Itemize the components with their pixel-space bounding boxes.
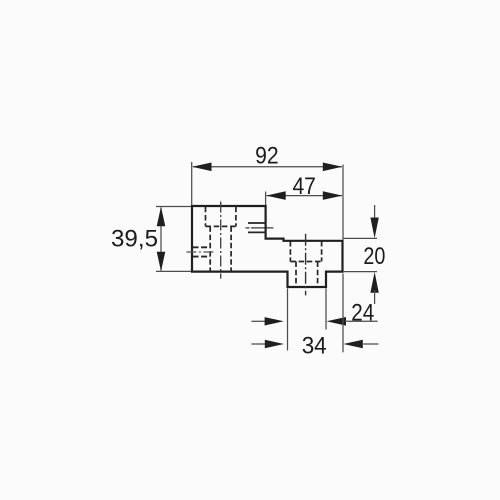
dim 39,5: top arrow bbox=[157, 207, 166, 227]
dim 24: left arrow head bbox=[265, 317, 284, 325]
hidden hole left: counterbore outer right bbox=[235, 207, 237, 227]
dim 34: right shaft bbox=[362, 343, 378, 345]
right hole centerline bbox=[305, 234, 307, 296]
dim 24: extension tenon right bbox=[325, 289, 327, 330]
dim 20: upper arrow shaft bbox=[374, 205, 376, 220]
step face hole: bottom line bbox=[248, 231, 266, 233]
hidden hole right: counterbore outer right bbox=[321, 241, 323, 262]
dim 24: extension tenon left bbox=[287, 289, 289, 351]
hidden hole right: inner right bbox=[317, 262, 319, 287]
dim 92/47: extension right bbox=[342, 165, 344, 240]
dim 92: extension left bbox=[191, 162, 193, 205]
dim 39,5: extension bottom bbox=[156, 270, 191, 272]
svg-text:34: 34 bbox=[302, 333, 327, 360]
hidden side hole: top bbox=[193, 246, 211, 248]
hidden hole left: inner left bbox=[209, 226, 211, 271]
svg-text:92: 92 bbox=[255, 143, 279, 170]
svg-text:24: 24 bbox=[351, 300, 374, 327]
hidden hole right: shoulder bbox=[290, 261, 321, 263]
dim 34: extension right bbox=[342, 274, 344, 353]
dim 34: left shaft bbox=[251, 343, 266, 345]
hidden hole right: inner left bbox=[295, 262, 297, 287]
dim 24: right shaft bbox=[345, 320, 378, 322]
hidden hole right: counterbore outer left bbox=[289, 241, 291, 262]
dim 92: line bbox=[193, 166, 342, 168]
svg-text:20: 20 bbox=[363, 243, 385, 270]
step face hole centerline bbox=[246, 227, 275, 229]
dim 47: right arrow bbox=[323, 191, 343, 200]
dim 20: ref line bottom bbox=[343, 271, 377, 273]
dim 39,5: line bbox=[160, 208, 162, 271]
dim 39,5: extension top bbox=[156, 206, 191, 208]
hidden hole left: inner right bbox=[230, 226, 232, 271]
dim 20: lower arrow head bbox=[370, 272, 378, 293]
part outline bbox=[192, 206, 343, 287]
dim 34: left arrow head bbox=[265, 340, 284, 348]
dim 24: left shaft bbox=[251, 320, 266, 322]
svg-text:39,5: 39,5 bbox=[111, 226, 158, 253]
dim 20: ref line top bbox=[343, 237, 377, 239]
dim 20: upper arrow head bbox=[370, 218, 378, 239]
hidden hole left: counterbore outer left bbox=[205, 207, 207, 227]
step face hole: top line bbox=[248, 222, 266, 224]
dim 92: left arrow bbox=[192, 163, 212, 172]
dim 34: right arrow head bbox=[343, 340, 363, 349]
hidden side hole: bottom bbox=[193, 256, 211, 258]
dim 47: extension left bbox=[265, 192, 267, 206]
dim 47: left arrow bbox=[266, 191, 286, 200]
dim 20: lower arrow shaft bbox=[374, 290, 376, 304]
dim 39,5: bottom arrow bbox=[157, 252, 166, 272]
left hole centerline bbox=[220, 202, 222, 279]
dim 24: right arrow head bbox=[327, 317, 347, 326]
dim 92: right arrow bbox=[323, 163, 343, 172]
svg-text:47: 47 bbox=[292, 173, 316, 200]
hidden hole left: counterbore shoulder bbox=[206, 225, 236, 227]
side hole centerline bbox=[186, 251, 214, 253]
dim 47: line bbox=[267, 195, 343, 197]
